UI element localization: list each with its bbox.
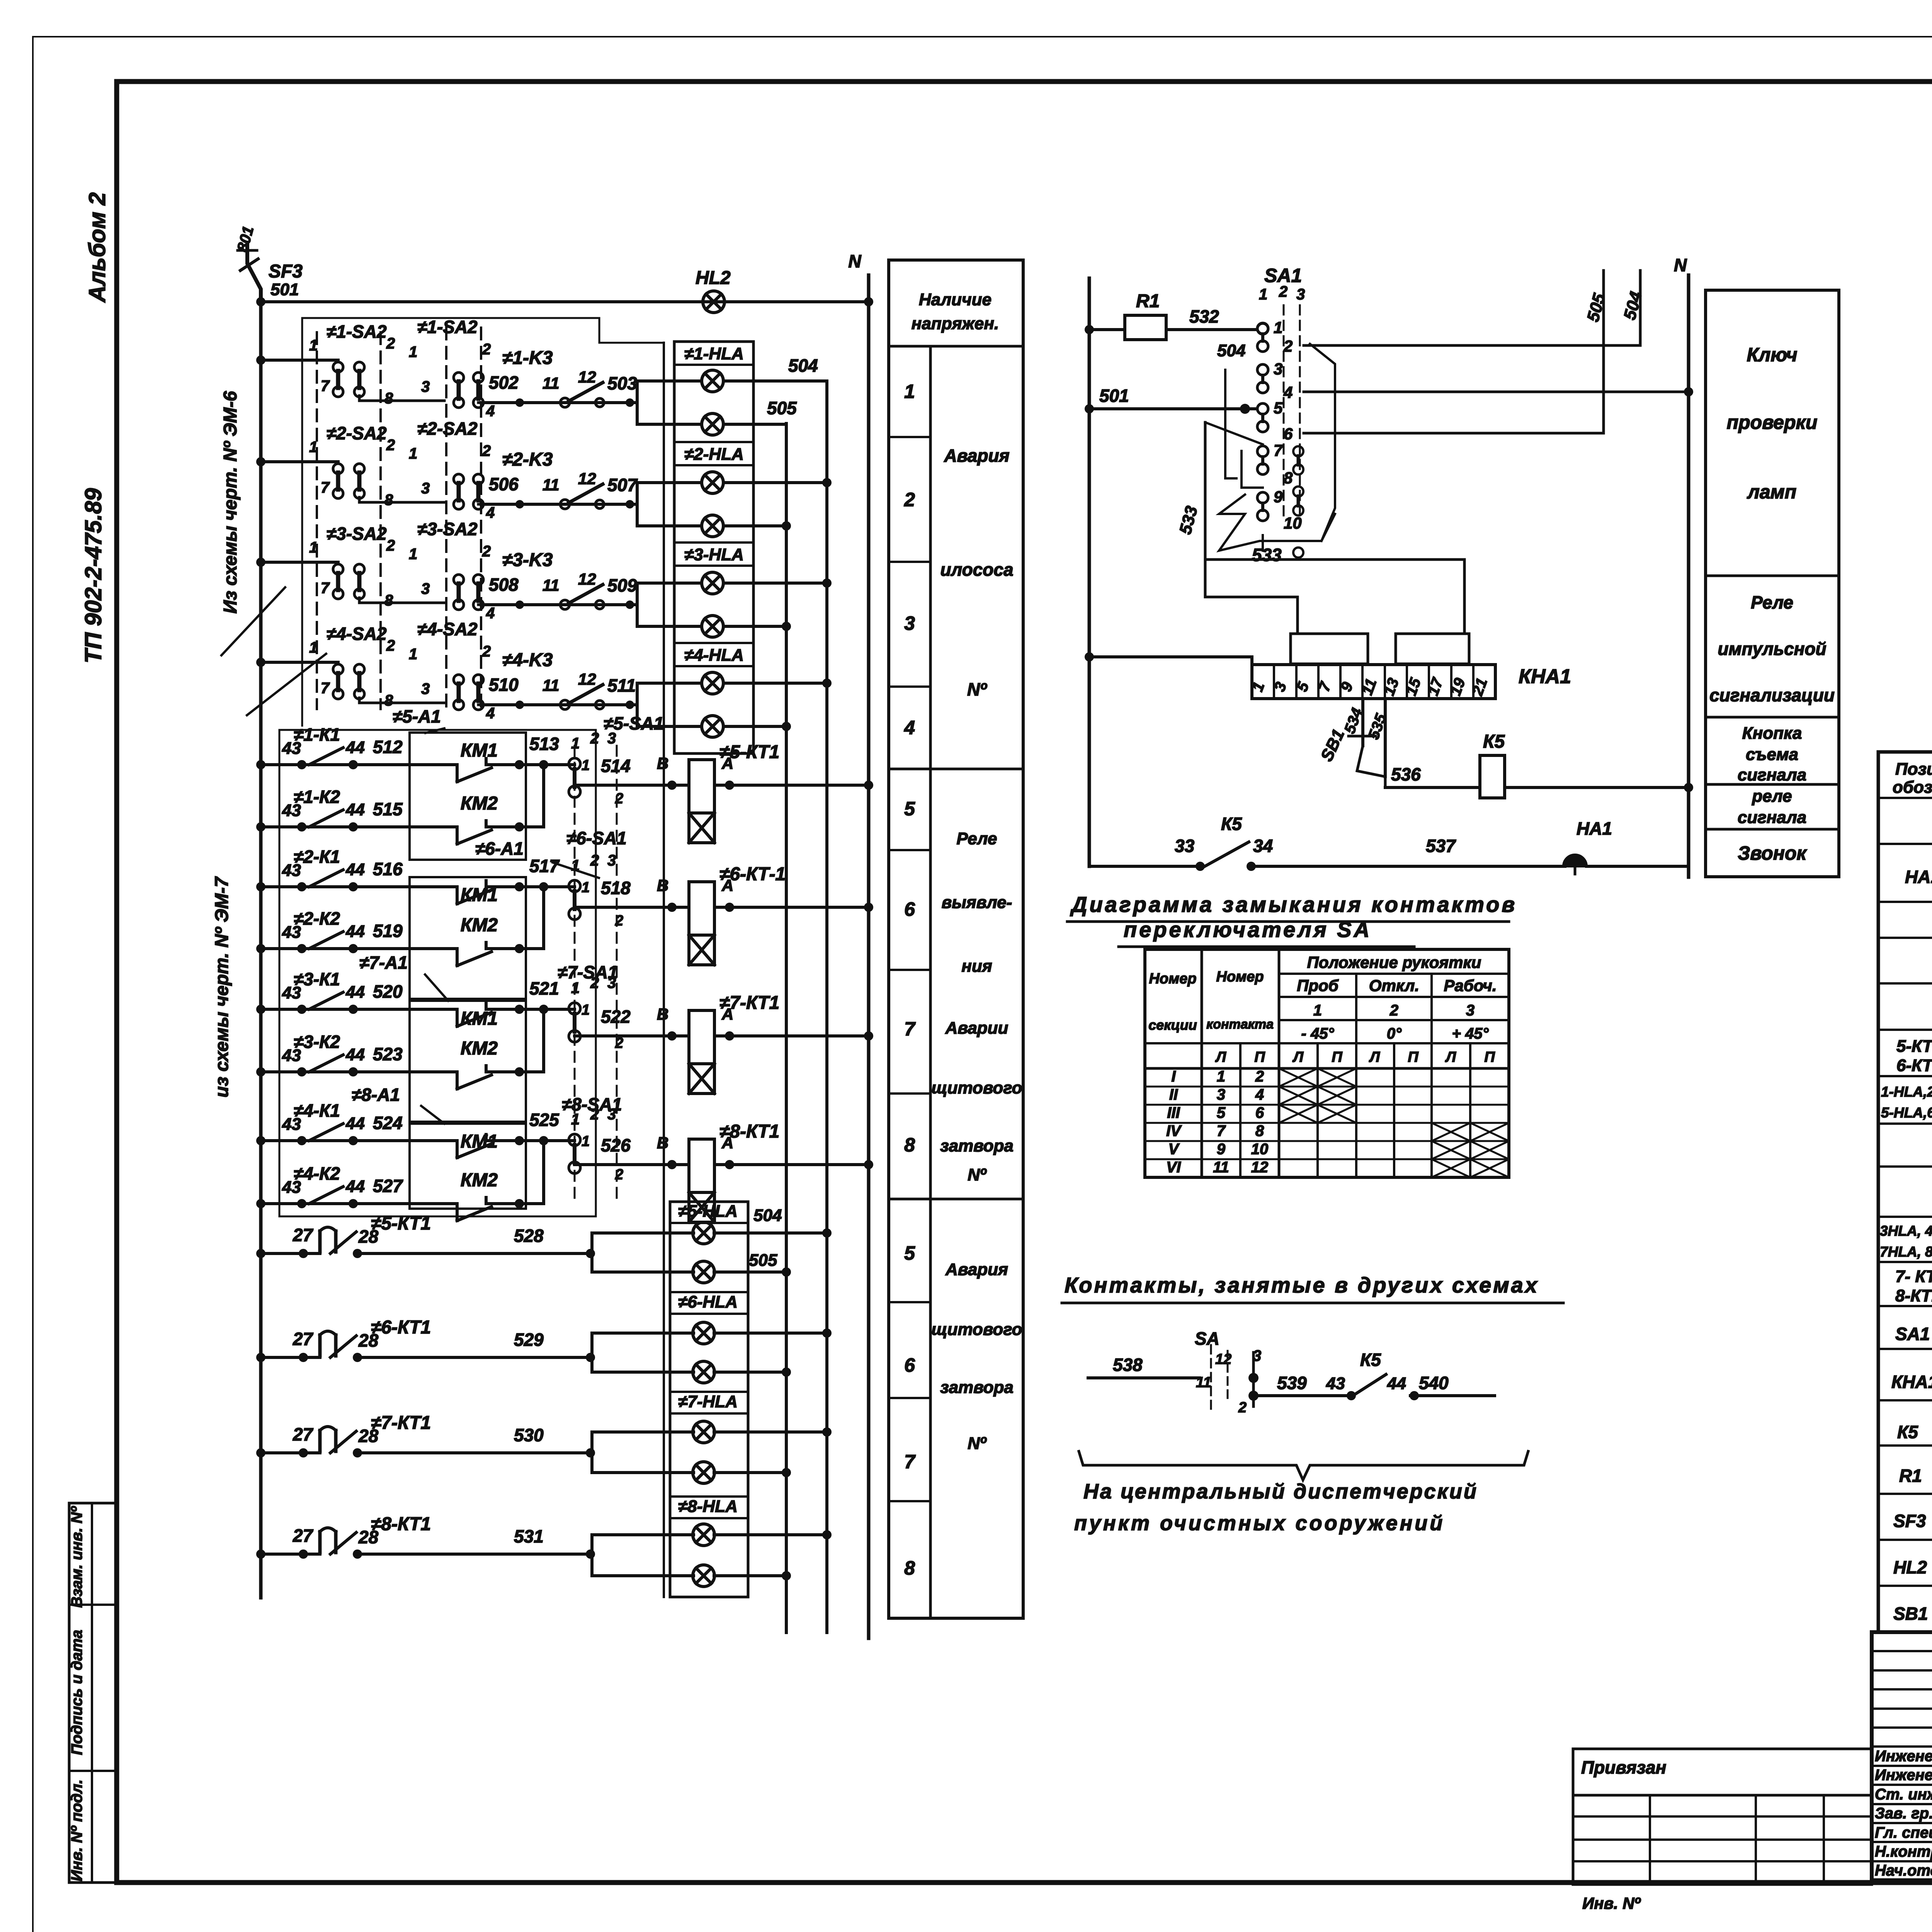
svg-text:НА1: НА1 <box>1577 818 1612 838</box>
svg-text:12: 12 <box>578 570 596 588</box>
svg-text:П: П <box>1332 1049 1342 1065</box>
svg-text:КМ2: КМ2 <box>461 1170 498 1190</box>
svg-text:44: 44 <box>345 922 365 941</box>
svg-text:13: 13 <box>1381 676 1403 698</box>
svg-text:4: 4 <box>486 705 495 722</box>
svg-text:≠3-SA2: ≠3-SA2 <box>417 519 478 539</box>
svg-text:44: 44 <box>345 1045 365 1064</box>
svg-text:≠2-К1: ≠2-К1 <box>294 847 340 867</box>
svg-text:34: 34 <box>1253 836 1273 856</box>
svg-text:Откл.: Откл. <box>1369 976 1419 995</box>
svg-text:501: 501 <box>270 280 299 299</box>
svg-text:КНА1: КНА1 <box>1891 1372 1932 1392</box>
svg-text:504: 504 <box>1217 341 1245 360</box>
svg-text:1: 1 <box>309 337 318 354</box>
svg-text:7: 7 <box>321 479 330 496</box>
svg-text:Nº: Nº <box>968 1165 987 1184</box>
svg-text:27: 27 <box>293 1424 314 1444</box>
svg-text:504: 504 <box>753 1206 782 1225</box>
svg-text:Номер: Номер <box>1149 971 1196 987</box>
svg-text:2: 2 <box>386 637 395 654</box>
svg-text:44: 44 <box>345 1177 365 1196</box>
svg-text:8: 8 <box>384 492 393 509</box>
svg-text:К5: К5 <box>1221 814 1242 834</box>
svg-text:529: 529 <box>514 1330 544 1350</box>
svg-text:Диаграмма замыкания контакто: Диаграмма замыкания контактов <box>1070 892 1517 917</box>
svg-text:≠3-SA2: ≠3-SA2 <box>327 524 387 544</box>
svg-text:8: 8 <box>904 1134 915 1156</box>
svg-text:Контакты, занятые в других схе: Контакты, занятые в других схемах <box>1065 1273 1539 1297</box>
svg-text:≠2-SA2: ≠2-SA2 <box>327 423 387 443</box>
svg-text:КМ1: КМ1 <box>461 740 498 761</box>
svg-text:531: 531 <box>514 1526 544 1546</box>
svg-text:≠4-К1: ≠4-К1 <box>294 1100 340 1121</box>
svg-text:513: 513 <box>529 734 559 754</box>
svg-text:съема: съема <box>1746 745 1798 764</box>
svg-text:сигнала: сигнала <box>1738 808 1806 827</box>
svg-text:Позиц.: Позиц. <box>1895 760 1932 779</box>
svg-text:5: 5 <box>904 798 915 820</box>
svg-text:HL2: HL2 <box>1893 1557 1927 1577</box>
svg-text:533: 533 <box>1176 504 1201 536</box>
svg-text:12: 12 <box>578 670 596 688</box>
svg-text:6: 6 <box>904 1354 915 1376</box>
svg-text:507: 507 <box>607 475 638 495</box>
svg-text:539: 539 <box>1277 1373 1307 1393</box>
svg-text:2: 2 <box>590 730 599 747</box>
svg-text:515: 515 <box>373 799 403 819</box>
svg-text:+ 45°: + 45° <box>1452 1025 1489 1042</box>
svg-text:4: 4 <box>1283 383 1293 401</box>
svg-text:12: 12 <box>1215 1351 1231 1367</box>
svg-text:Кнопка: Кнопка <box>1742 724 1802 743</box>
svg-text:7: 7 <box>321 680 330 697</box>
svg-text:из схемы черт. Nº ЭМ-7: из схемы черт. Nº ЭМ-7 <box>212 876 232 1097</box>
svg-text:2: 2 <box>482 543 491 560</box>
svg-text:3: 3 <box>421 580 430 597</box>
svg-text:≠1-К2: ≠1-К2 <box>294 787 340 807</box>
svg-text:сигнала: сигнала <box>1738 765 1806 784</box>
svg-text:2: 2 <box>1389 1002 1398 1019</box>
svg-text:1: 1 <box>409 546 417 563</box>
svg-text:5-КТ1: 5-КТ1 <box>1896 1037 1932 1056</box>
svg-text:1: 1 <box>582 1133 590 1150</box>
svg-text:505: 505 <box>749 1251 777 1270</box>
svg-text:44: 44 <box>345 860 365 879</box>
svg-text:Инженер: Инженер <box>1875 1767 1932 1784</box>
svg-text:44: 44 <box>345 983 365 1002</box>
svg-text:8: 8 <box>1255 1122 1264 1139</box>
svg-text:≠5-КТ1: ≠5-КТ1 <box>371 1213 431 1234</box>
svg-text:44: 44 <box>1387 1374 1406 1393</box>
svg-text:П: П <box>1254 1049 1265 1065</box>
svg-text:3: 3 <box>421 680 430 697</box>
svg-text:≠7-HLA: ≠7-HLA <box>678 1392 738 1411</box>
svg-text:≠1-K3: ≠1-K3 <box>502 348 553 368</box>
svg-text:Ключ: Ключ <box>1747 344 1797 366</box>
svg-text:R1: R1 <box>1899 1466 1922 1486</box>
svg-text:Зав. гр.: Зав. гр. <box>1875 1805 1932 1822</box>
svg-text:505: 505 <box>1583 291 1609 324</box>
svg-text:527: 527 <box>373 1176 403 1196</box>
svg-text:1: 1 <box>582 879 590 896</box>
svg-text:506: 506 <box>489 474 519 494</box>
svg-text:переключателя SА: переключателя SА <box>1124 917 1372 942</box>
svg-text:508: 508 <box>489 575 519 595</box>
svg-text:N: N <box>848 251 861 271</box>
svg-text:3HLA, 4-HLA,: 3HLA, 4-HLA, <box>1880 1223 1932 1239</box>
svg-text:Ст. инж.: Ст. инж. <box>1875 1786 1932 1803</box>
svg-text:3: 3 <box>1296 286 1305 303</box>
svg-text:Реле: Реле <box>1751 592 1793 612</box>
svg-text:≠7-КТ1: ≠7-КТ1 <box>371 1413 431 1433</box>
svg-text:21: 21 <box>1469 676 1491 698</box>
svg-text:2: 2 <box>482 341 491 358</box>
svg-text:7: 7 <box>904 1451 916 1473</box>
svg-text:504: 504 <box>1620 289 1646 322</box>
svg-text:3: 3 <box>607 730 616 747</box>
svg-text:27: 27 <box>293 1225 314 1245</box>
svg-text:пункт очистных сооружений: пункт очистных сооружений <box>1074 1512 1445 1535</box>
svg-text:затвора: затвора <box>940 1136 1014 1155</box>
svg-text:Л: Л <box>1292 1049 1304 1065</box>
svg-text:Из схемы черт. Nº ЭМ-6: Из схемы черт. Nº ЭМ-6 <box>220 391 241 614</box>
svg-text:КМ2: КМ2 <box>461 1038 498 1059</box>
svg-text:Гл. спец.: Гл. спец. <box>1875 1824 1932 1841</box>
svg-text:5: 5 <box>904 1242 915 1264</box>
svg-text:Н.контр.: Н.контр. <box>1875 1843 1932 1860</box>
svg-text:1: 1 <box>1313 1002 1322 1019</box>
svg-text:НА1: НА1 <box>1905 867 1932 887</box>
svg-text:2: 2 <box>386 335 395 352</box>
svg-text:2: 2 <box>590 852 599 869</box>
svg-text:Инв. Nº: Инв. Nº <box>1582 1894 1641 1912</box>
svg-text:3: 3 <box>1466 1002 1475 1019</box>
svg-text:П: П <box>1408 1049 1418 1065</box>
svg-text:2: 2 <box>386 437 395 454</box>
svg-text:6: 6 <box>904 898 915 920</box>
svg-text:528: 528 <box>514 1226 544 1246</box>
svg-text:33: 33 <box>1175 836 1195 856</box>
svg-text:3: 3 <box>607 1106 616 1123</box>
svg-text:4: 4 <box>486 403 495 420</box>
svg-text:4: 4 <box>1255 1086 1264 1103</box>
svg-text:щитового: щитового <box>931 1078 1022 1097</box>
svg-text:≠4-К2: ≠4-К2 <box>294 1163 340 1184</box>
svg-text:4: 4 <box>904 717 915 738</box>
svg-text:512: 512 <box>373 737 403 757</box>
svg-text:SА1: SА1 <box>1895 1324 1930 1344</box>
svg-text:3: 3 <box>1217 1086 1225 1103</box>
svg-text:IV: IV <box>1166 1122 1182 1139</box>
svg-text:537: 537 <box>1426 836 1456 856</box>
svg-text:11: 11 <box>543 576 560 594</box>
svg-text:1: 1 <box>582 1002 590 1018</box>
svg-text:≠5-КТ1: ≠5-КТ1 <box>719 742 779 762</box>
svg-text:538: 538 <box>1113 1355 1143 1375</box>
svg-text:1: 1 <box>409 344 417 361</box>
svg-text:Звонок: Звонок <box>1738 842 1807 864</box>
svg-text:504: 504 <box>788 355 818 376</box>
svg-text:В: В <box>657 876 668 895</box>
svg-text:519: 519 <box>373 921 403 941</box>
svg-text:Реле: Реле <box>956 829 997 848</box>
svg-text:≠6-HLA: ≠6-HLA <box>678 1293 738 1311</box>
svg-text:КМ2: КМ2 <box>461 915 498 935</box>
svg-text:10: 10 <box>1284 514 1302 532</box>
svg-text:≠2-K3: ≠2-K3 <box>502 449 553 470</box>
svg-text:7: 7 <box>1274 441 1283 459</box>
svg-text:Nº: Nº <box>968 1434 987 1453</box>
svg-text:536: 536 <box>1391 764 1421 784</box>
svg-text:≠4-SA2: ≠4-SA2 <box>417 619 478 639</box>
svg-text:524: 524 <box>373 1113 403 1133</box>
svg-text:11: 11 <box>1196 1374 1211 1391</box>
svg-text:514: 514 <box>601 756 631 776</box>
svg-text:1: 1 <box>309 639 318 656</box>
svg-text:КНА1: КНА1 <box>1519 665 1571 688</box>
svg-text:HL2: HL2 <box>696 268 731 288</box>
svg-text:5: 5 <box>1274 399 1283 417</box>
svg-text:SB1: SB1 <box>1317 726 1349 764</box>
svg-text:≠5-HLA: ≠5-HLA <box>678 1202 738 1221</box>
svg-text:520: 520 <box>373 981 403 1002</box>
svg-text:2: 2 <box>904 489 915 510</box>
svg-text:2: 2 <box>1255 1068 1264 1085</box>
svg-text:7: 7 <box>321 580 330 597</box>
svg-text:≠4-SA2: ≠4-SA2 <box>327 624 387 644</box>
svg-text:1: 1 <box>1259 286 1267 303</box>
svg-text:Номер: Номер <box>1216 969 1264 985</box>
svg-text:1: 1 <box>409 445 417 462</box>
svg-text:8: 8 <box>384 692 393 709</box>
svg-text:затвора: затвора <box>940 1378 1014 1397</box>
svg-text:≠8-А1: ≠8-А1 <box>352 1085 400 1105</box>
svg-text:секции: секции <box>1148 1017 1197 1033</box>
svg-text:5: 5 <box>1217 1104 1226 1121</box>
svg-text:1: 1 <box>409 646 417 663</box>
svg-text:3: 3 <box>421 480 430 497</box>
svg-text:импульсной: импульсной <box>1718 639 1826 659</box>
svg-text:щитового: щитового <box>931 1320 1022 1339</box>
svg-text:≠1-HLA: ≠1-HLA <box>684 344 744 363</box>
svg-text:≠1-К1: ≠1-К1 <box>294 724 340 745</box>
svg-text:3: 3 <box>1274 360 1282 378</box>
svg-text:ния: ния <box>961 957 992 976</box>
svg-text:9: 9 <box>1274 488 1283 506</box>
svg-text:7HLA, 8-HLA: 7HLA, 8-HLA <box>1880 1244 1932 1260</box>
svg-text:VI: VI <box>1166 1159 1181 1176</box>
svg-text:Привязан: Привязан <box>1581 1757 1666 1777</box>
svg-text:реле: реле <box>1752 787 1792 806</box>
svg-text:ламп: ламп <box>1747 481 1796 503</box>
svg-text:напряжен.: напряжен. <box>912 314 999 333</box>
svg-text:≠2-SA2: ≠2-SA2 <box>417 418 478 439</box>
svg-text:517: 517 <box>529 856 560 876</box>
svg-text:К5: К5 <box>1483 731 1505 752</box>
svg-text:I: I <box>1171 1068 1176 1085</box>
svg-text:1: 1 <box>1274 318 1282 337</box>
svg-text:К5: К5 <box>1897 1422 1918 1442</box>
svg-text:9: 9 <box>1217 1141 1226 1158</box>
svg-text:7: 7 <box>1217 1122 1226 1139</box>
svg-text:521: 521 <box>529 978 559 998</box>
svg-text:Альбом 2: Альбом 2 <box>84 192 110 303</box>
svg-text:7: 7 <box>321 378 330 395</box>
svg-text:В: В <box>657 1005 668 1023</box>
svg-text:≠3-К1: ≠3-К1 <box>294 969 340 989</box>
svg-text:V: V <box>1168 1141 1180 1158</box>
svg-text:12: 12 <box>578 368 596 386</box>
svg-text:11: 11 <box>543 476 560 494</box>
svg-text:8: 8 <box>1284 469 1293 487</box>
svg-text:6: 6 <box>1255 1104 1264 1121</box>
svg-text:Инженер: Инженер <box>1875 1748 1932 1765</box>
svg-text:проверки: проверки <box>1727 412 1818 433</box>
svg-text:Аварии: Аварии <box>945 1019 1009 1037</box>
svg-text:Инв. Nº подл.: Инв. Nº подл. <box>68 1779 85 1881</box>
svg-text:4: 4 <box>486 605 495 622</box>
svg-text:43: 43 <box>1326 1374 1345 1393</box>
svg-text:Авария: Авария <box>944 446 1009 466</box>
svg-text:2: 2 <box>386 537 395 554</box>
svg-text:выявле-: выявле- <box>942 893 1012 912</box>
svg-text:1: 1 <box>309 539 318 556</box>
svg-text:КМ2: КМ2 <box>461 793 498 814</box>
svg-text:3: 3 <box>607 975 616 992</box>
svg-text:5-HLA,6-HLA: 5-HLA,6-HLA <box>1881 1105 1932 1121</box>
svg-text:2: 2 <box>482 442 491 459</box>
svg-text:≠6-КТ-1: ≠6-КТ-1 <box>719 864 786 884</box>
svg-text:540: 540 <box>1419 1373 1449 1393</box>
svg-text:8: 8 <box>904 1557 915 1579</box>
svg-text:Рабоч.: Рабоч. <box>1444 976 1497 995</box>
svg-text:≠5-А1: ≠5-А1 <box>393 706 441 726</box>
svg-text:Nº: Nº <box>967 679 987 699</box>
svg-text:511: 511 <box>607 675 636 696</box>
svg-text:N: N <box>1674 255 1687 275</box>
svg-text:27: 27 <box>293 1329 314 1349</box>
svg-text:≠2-HLA: ≠2-HLA <box>684 445 744 464</box>
svg-text:533: 533 <box>1252 545 1282 565</box>
svg-text:6-КТ1: 6-КТ1 <box>1896 1056 1932 1075</box>
svg-text:II: II <box>1169 1086 1178 1103</box>
svg-text:R1: R1 <box>1136 291 1160 311</box>
svg-text:сигнализации: сигнализации <box>1709 685 1835 705</box>
svg-text:≠4-K3: ≠4-K3 <box>502 650 553 670</box>
svg-text:SF3: SF3 <box>1893 1511 1926 1531</box>
svg-text:≠2-К2: ≠2-К2 <box>294 908 340 929</box>
svg-text:4: 4 <box>486 504 495 521</box>
svg-text:503: 503 <box>607 373 637 393</box>
svg-text:10: 10 <box>1251 1141 1269 1158</box>
svg-text:≠3-HLA: ≠3-HLA <box>684 545 744 564</box>
svg-text:- 45°: - 45° <box>1301 1025 1335 1042</box>
svg-text:≠3-К2: ≠3-К2 <box>294 1032 340 1052</box>
svg-text:3: 3 <box>421 378 430 395</box>
svg-text:III: III <box>1167 1104 1180 1121</box>
svg-text:К5: К5 <box>1360 1350 1381 1370</box>
svg-text:≠8-КТ1: ≠8-КТ1 <box>371 1514 431 1534</box>
svg-text:505: 505 <box>767 398 797 418</box>
svg-text:Л: Л <box>1369 1049 1380 1065</box>
svg-text:1: 1 <box>582 757 590 774</box>
svg-text:0°: 0° <box>1387 1025 1402 1042</box>
svg-text:В: В <box>657 754 668 772</box>
svg-text:523: 523 <box>373 1044 403 1064</box>
svg-text:509: 509 <box>607 575 637 595</box>
svg-text:Л: Л <box>1215 1049 1226 1065</box>
svg-text:502: 502 <box>489 372 519 393</box>
svg-text:Л: Л <box>1445 1049 1456 1065</box>
svg-text:Наличие: Наличие <box>919 290 992 309</box>
svg-text:≠7-КТ1: ≠7-КТ1 <box>719 993 779 1013</box>
svg-text:7- КТ1: 7- КТ1 <box>1895 1267 1932 1286</box>
svg-text:8: 8 <box>384 390 393 407</box>
svg-text:525: 525 <box>529 1110 560 1130</box>
svg-text:контакта: контакта <box>1206 1017 1274 1032</box>
svg-text:6: 6 <box>1284 425 1293 443</box>
svg-text:3: 3 <box>607 852 616 869</box>
svg-text:≠8-КТ1: ≠8-КТ1 <box>719 1121 779 1142</box>
svg-text:Подпись и дата: Подпись и дата <box>68 1630 85 1755</box>
svg-text:≠3-K3: ≠3-K3 <box>502 550 553 570</box>
svg-text:П: П <box>1484 1049 1495 1065</box>
svg-text:2: 2 <box>590 1106 599 1123</box>
svg-text:SА: SА <box>1195 1328 1219 1349</box>
svg-text:8: 8 <box>384 592 393 609</box>
svg-text:44: 44 <box>345 738 365 757</box>
svg-text:илососа: илососа <box>940 560 1013 580</box>
svg-text:1-HLA,2-HLA,: 1-HLA,2-HLA, <box>1881 1084 1932 1100</box>
svg-text:2: 2 <box>1279 283 1287 300</box>
svg-text:12: 12 <box>578 469 596 488</box>
svg-text:≠6-А1: ≠6-А1 <box>475 838 524 859</box>
svg-text:501: 501 <box>1099 386 1129 406</box>
svg-text:530: 530 <box>514 1425 544 1445</box>
svg-text:12: 12 <box>1251 1159 1269 1176</box>
svg-text:ТП 902-2-475.89: ТП 902-2-475.89 <box>80 488 106 663</box>
svg-text:≠1-SA2: ≠1-SA2 <box>327 321 387 342</box>
svg-text:8-КТ1: 8-КТ1 <box>1895 1286 1932 1305</box>
svg-text:≠8-HLA: ≠8-HLA <box>678 1497 738 1516</box>
svg-text:2: 2 <box>590 975 599 992</box>
svg-text:SF3: SF3 <box>269 261 303 282</box>
svg-text:27: 27 <box>293 1526 314 1546</box>
svg-text:11: 11 <box>543 374 560 392</box>
svg-text:11: 11 <box>543 676 560 694</box>
svg-text:44: 44 <box>345 1114 365 1133</box>
svg-text:510: 510 <box>489 675 519 695</box>
svg-text:2: 2 <box>1283 337 1293 355</box>
svg-text:≠1-SA2: ≠1-SA2 <box>417 317 478 337</box>
svg-text:Взам. инв. Nº: Взам. инв. Nº <box>68 1506 85 1608</box>
svg-text:≠6-КТ1: ≠6-КТ1 <box>371 1317 431 1338</box>
svg-text:1: 1 <box>904 381 915 402</box>
svg-text:532: 532 <box>1189 306 1219 327</box>
svg-text:Положение рукоятки: Положение рукоятки <box>1307 953 1481 971</box>
svg-text:На центральный диспетчерский: На центральный диспетчерский <box>1083 1480 1478 1503</box>
svg-text:Проб: Проб <box>1297 976 1339 995</box>
svg-text:Авария: Авария <box>945 1260 1008 1279</box>
svg-text:2: 2 <box>1238 1400 1247 1416</box>
svg-text:44: 44 <box>345 800 365 819</box>
svg-text:3: 3 <box>904 612 915 634</box>
svg-text:Нач.отд.: Нач.отд. <box>1875 1862 1932 1879</box>
svg-text:≠7-А1: ≠7-А1 <box>359 952 408 973</box>
svg-text:2: 2 <box>482 643 491 660</box>
svg-text:≠4-HLA: ≠4-HLA <box>684 646 744 665</box>
